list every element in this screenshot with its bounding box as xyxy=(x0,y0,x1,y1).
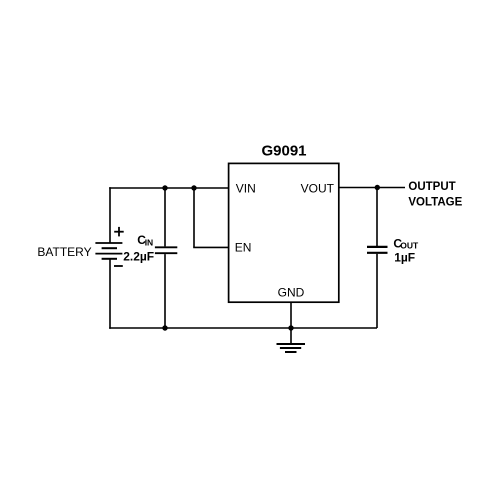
ground xyxy=(277,344,306,352)
junction dot VOUT xyxy=(375,185,380,190)
svg-text:VOLTAGE: VOLTAGE xyxy=(408,196,462,208)
wire bottom ground net xyxy=(109,327,377,329)
wire EN vertical xyxy=(193,188,195,247)
wire GND pin xyxy=(290,302,292,344)
chip U1 G9091 xyxy=(229,163,339,302)
wire top VIN net xyxy=(109,187,228,189)
label battery plus xyxy=(114,227,124,237)
svg-text:IN: IN xyxy=(145,238,154,248)
wire C_IN top xyxy=(164,188,166,246)
capacitor C_OUT xyxy=(367,247,388,253)
svg-text:VIN: VIN xyxy=(236,181,256,195)
svg-text:2.2µF: 2.2µF xyxy=(123,249,154,263)
junction dot GND xyxy=(288,325,293,330)
junction dot C_IN bottom xyxy=(162,325,167,330)
battery BATTERY xyxy=(95,243,122,259)
svg-text:G9091: G9091 xyxy=(261,142,306,159)
svg-text:BATTERY: BATTERY xyxy=(37,245,91,259)
svg-text:GND: GND xyxy=(278,285,305,299)
label battery minus xyxy=(114,265,123,267)
svg-text:1µF: 1µF xyxy=(394,251,415,265)
wire battery negative xyxy=(109,259,111,329)
wire left battery positive xyxy=(109,187,111,243)
junction dot EN tap xyxy=(191,185,196,190)
capacitor C_IN xyxy=(155,247,177,253)
junction dot C_IN top xyxy=(162,185,167,190)
svg-text:OUT: OUT xyxy=(400,241,419,251)
wire EN horizontal xyxy=(193,246,228,248)
wire C_IN bottom xyxy=(164,254,166,328)
svg-text:EN: EN xyxy=(235,241,252,255)
wire VOUT output xyxy=(339,187,405,189)
svg-text:OUTPUT: OUTPUT xyxy=(408,181,455,193)
wire C_OUT top xyxy=(376,188,378,247)
wire C_OUT bottom xyxy=(376,254,378,328)
svg-text:VOUT: VOUT xyxy=(301,181,335,195)
